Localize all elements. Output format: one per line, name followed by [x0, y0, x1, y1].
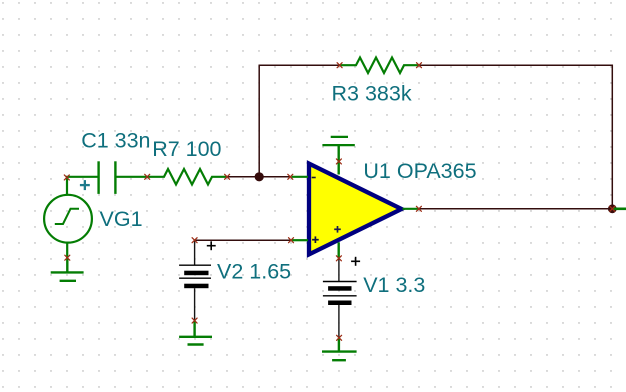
op-amp U1 OPA365 [309, 164, 402, 255]
svg-text:R7 100: R7 100 [152, 137, 221, 161]
ground below VG1 [51, 258, 84, 281]
svg-text:V1 3.3: V1 3.3 [363, 273, 425, 297]
positive supply rail symbol above op-amp [322, 137, 354, 175]
pin x mark U1 positive supply pin [336, 159, 341, 164]
wire: feedback vertical left (junction up) [258, 65, 260, 177]
battery V1 [323, 258, 357, 338]
V1 plus sign [351, 257, 360, 266]
pin x mark V2 plus terminal [192, 238, 197, 243]
op-amp power plus marker [334, 226, 341, 233]
svg-text:V2 1.65: V2 1.65 [217, 259, 291, 283]
node: junction dot on inverting input net [255, 172, 264, 181]
node: output junction dot [608, 204, 617, 213]
svg-text:R3 383k: R3 383k [332, 82, 412, 106]
pin x mark R7 pin 2 [225, 174, 230, 179]
wire: feedback top left horizontal to R3 [259, 64, 341, 66]
pin x mark U1 non-inverting input pin [289, 238, 294, 243]
V2 plus sign [207, 241, 216, 250]
pin x mark R3 pin 2 [417, 63, 422, 68]
wire: feedback right vertical down [611, 65, 613, 209]
ground below V2 [179, 321, 212, 345]
svg-text:VG1: VG1 [100, 207, 143, 231]
op-amp minus input marker [312, 177, 316, 179]
VG1 plus sign [80, 180, 90, 190]
wire: V2 plus terminal to op-amp non-inverting pin [195, 239, 291, 241]
pin x mark U1 output pin [416, 206, 421, 211]
pin x mark output node [610, 206, 615, 211]
voltage source VG1 [44, 177, 92, 258]
svg-text:U1 OPA365: U1 OPA365 [363, 159, 476, 183]
ground below V1 [322, 338, 357, 360]
op-amp inverting pin stub [292, 176, 309, 178]
pin x mark R7 pin 1 [145, 174, 150, 179]
resistor R3 [340, 58, 419, 74]
pin x mark U1 inverting input pin [288, 174, 293, 179]
op-amp non-inverting pin stub [292, 239, 308, 241]
pin x mark VG1 minus terminal to ground [65, 255, 70, 260]
wire: feedback top right horizontal from R3 [419, 64, 612, 66]
svg-text:C1 33n: C1 33n [81, 129, 150, 153]
wire: output horizontal to right node [419, 208, 612, 210]
battery V2 [179, 240, 211, 320]
pin x mark U1 negative supply pin / V1 plus terminal [336, 256, 341, 261]
output stub to right edge [613, 208, 626, 211]
op-amp output pin stub [403, 208, 420, 210]
capacitor C1 [66, 161, 147, 194]
op-amp plus input marker [312, 236, 319, 243]
pin x mark R3 pin 1 [337, 63, 342, 68]
pin x mark VG1 plus terminal / C1 left pin [64, 175, 69, 180]
wire: input node R7 to op-amp inverting pin [227, 176, 291, 178]
pin x mark V1 minus terminal to ground [337, 335, 342, 340]
resistor R7 [147, 169, 227, 185]
op-amp V- pin stub to V1 [338, 242, 340, 258]
pin x mark V2 minus terminal to ground [192, 318, 197, 323]
